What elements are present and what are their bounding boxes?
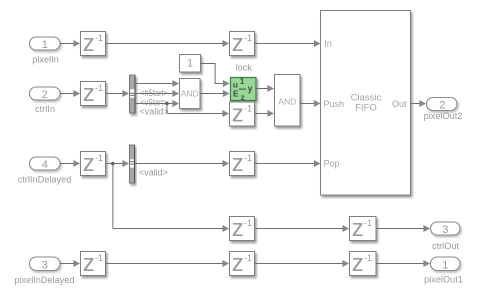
wire to pixelOut1 port: [376, 260, 430, 267]
Classic FIFO subsystem: [321, 11, 411, 196]
svg-text:-1: -1: [244, 153, 252, 163]
svg-text:z: z: [352, 215, 364, 242]
wire FIFO Out to pixelOut2: [411, 100, 426, 107]
wire ctrlIn to delay: [60, 90, 80, 97]
unit delay z-1 (row4 left): [81, 150, 106, 177]
svg-text:FIFO: FIFO: [355, 102, 377, 113]
svg-text:z: z: [352, 250, 364, 277]
outport 1 pixelOut1: [424, 257, 463, 285]
wire pixelIn to delay: [60, 40, 80, 47]
svg-text:ctrlOut: ctrlOut: [432, 241, 460, 251]
wire to ctrlOut port: [376, 225, 430, 232]
unit delay z-1 (ctrlOut row b): [350, 215, 377, 242]
svg-text:AND: AND: [278, 97, 296, 107]
wire valid (bus2) to delay: [135, 160, 230, 177]
svg-text:4: 4: [42, 159, 48, 171]
svg-text:Push: Push: [324, 99, 345, 109]
svg-text:pixelInDelayed: pixelInDelayed: [14, 275, 74, 285]
svg-text:Out: Out: [392, 99, 407, 109]
svg-text:z: z: [232, 215, 244, 242]
wire valid: [135, 100, 179, 117]
AND gate 2: [275, 75, 301, 127]
wire hStart: [135, 80, 179, 98]
svg-text:-1: -1: [364, 253, 372, 263]
svg-text:2: 2: [439, 100, 445, 112]
constant 1: [180, 55, 201, 73]
wire delay to bus selector 2 with junction: [106, 160, 130, 167]
svg-text:AND: AND: [181, 89, 199, 99]
svg-text:z: z: [83, 80, 95, 107]
wire to FIFO Pop: [255, 160, 321, 167]
svg-text:<valid>: <valid>: [139, 107, 168, 117]
svg-text:y: y: [248, 84, 253, 94]
junction valid branch: [165, 102, 229, 117]
svg-text:pixelIn: pixelIn: [32, 54, 59, 64]
wire ctrlInDelayed to delay: [60, 160, 80, 167]
wire vStart: [135, 90, 179, 108]
svg-text:-1: -1: [244, 253, 252, 263]
svg-text:In: In: [324, 38, 332, 48]
inport 4 ctrlInDelayed: [18, 157, 72, 184]
unit delay z-1 (ctrlOut row a): [230, 215, 255, 242]
unit delay z-1 (row6 mid): [230, 250, 255, 277]
svg-text:z: z: [232, 101, 244, 128]
svg-text:Pop: Pop: [324, 158, 340, 168]
enabled delay (selected, green): [231, 77, 257, 102]
wire enabled delay to AND2: [256, 85, 274, 92]
svg-text:-1: -1: [95, 153, 103, 163]
outport 3 ctrlOut: [431, 222, 461, 251]
svg-text:3: 3: [442, 224, 448, 236]
svg-text:lock: lock: [236, 62, 253, 72]
unit delay z-1 (row2 left): [81, 80, 106, 107]
svg-text:E: E: [233, 89, 239, 99]
svg-text:pixelOut2: pixelOut2: [424, 111, 463, 121]
unit delay z-1 (row6 left): [81, 250, 106, 277]
unit delay z-1 (row1 middle): [230, 30, 255, 57]
svg-text:-1: -1: [244, 218, 252, 228]
svg-text:ctrlIn: ctrlIn: [35, 104, 55, 114]
svg-text:1: 1: [42, 39, 48, 51]
inport 3 pixelInDelayed: [14, 257, 74, 285]
wire row6 mid: [255, 260, 350, 267]
wire delay to bus selector: [106, 90, 130, 97]
wire AND1 to enabled delay E: [200, 90, 230, 97]
svg-text:-1: -1: [244, 33, 252, 43]
svg-text:1: 1: [187, 58, 193, 70]
wire pixelInDelayed to delay: [60, 260, 80, 267]
svg-text:z: z: [83, 30, 95, 57]
svg-text:-1: -1: [95, 33, 103, 43]
svg-text:pixelOut1: pixelOut1: [424, 275, 463, 285]
svg-text:z: z: [83, 250, 95, 277]
wire delay to AND2: [255, 110, 275, 117]
unit delay z-1 (row1 left): [81, 30, 106, 57]
wire row1 long: [106, 40, 230, 47]
bus selector 1: [130, 75, 136, 113]
wire AND2 to FIFO Push: [300, 100, 321, 107]
svg-text:-1: -1: [244, 103, 252, 113]
svg-text:1: 1: [442, 259, 448, 271]
inport 2 ctrlIn: [30, 87, 61, 114]
wire to FIFO In: [255, 40, 321, 47]
AND gate 1: [180, 79, 201, 109]
svg-text:ctrlInDelayed: ctrlInDelayed: [18, 174, 72, 184]
outport 2 pixelOut2: [424, 98, 463, 122]
unit delay z-1 (row6 right): [350, 250, 377, 277]
wire constant to enabled delay u: [201, 64, 230, 88]
svg-text:z: z: [83, 150, 95, 177]
inport 1 pixelIn: [30, 37, 61, 64]
branch wire down to ctrlOut row: [113, 164, 229, 233]
bus selector 2: [130, 145, 135, 183]
svg-text:-1: -1: [95, 253, 103, 263]
svg-text:-1: -1: [95, 83, 103, 93]
svg-text:3: 3: [42, 259, 48, 271]
svg-text:z: z: [232, 250, 244, 277]
svg-text:<valid>: <valid>: [139, 167, 168, 177]
svg-text:z: z: [232, 30, 244, 57]
wire ctrlOut row: [255, 225, 350, 232]
svg-text:1: 1: [240, 77, 245, 86]
wire row6 long: [106, 260, 230, 267]
svg-text:2: 2: [42, 89, 48, 101]
unit delay z-1 (Pop path): [230, 150, 255, 177]
svg-text:z: z: [232, 150, 244, 177]
svg-text:-1: -1: [364, 218, 372, 228]
unit delay z-1 (below enabled delay): [230, 101, 255, 128]
